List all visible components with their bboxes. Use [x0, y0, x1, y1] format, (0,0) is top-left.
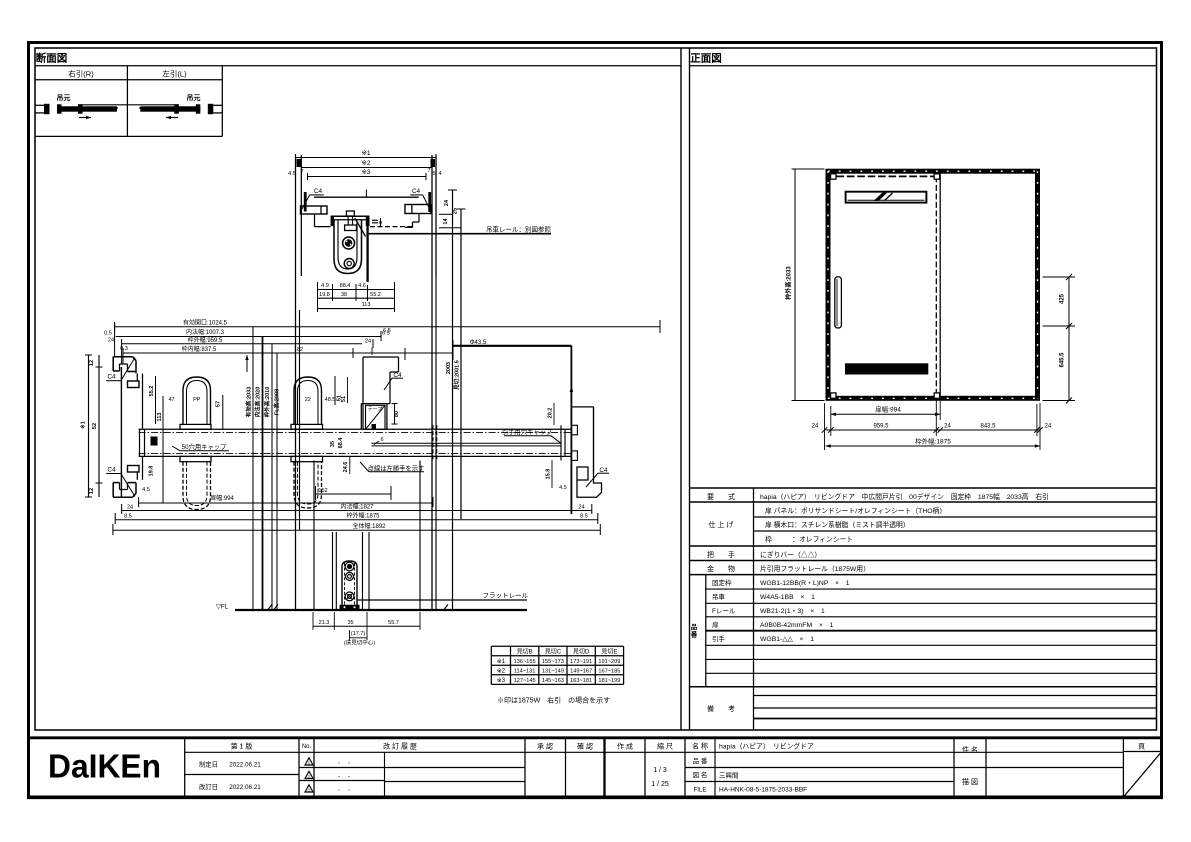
svg-text:HA-HNK-08-5-1875-2033-BBF: HA-HNK-08-5-1875-2033-BBF [719, 787, 807, 794]
door centerline top [365, 190, 367, 198]
front dim 645.5 [1060, 352, 1066, 368]
front dim chain labels [812, 424, 1052, 430]
height dim rot label 2003 [446, 362, 452, 374]
left jamb outer face [120, 367, 122, 497]
svg-text:163~181: 163~181 [570, 678, 592, 684]
left panel title 断面図 [36, 52, 68, 65]
svg-text:Φ43.5: Φ43.5 [470, 340, 487, 346]
svg-text:枠外幅:1875: 枠外幅:1875 [346, 512, 380, 520]
svg-text:内法幅:1007.3: 内法幅:1007.3 [186, 328, 225, 336]
hikikata header 左引(L) [162, 69, 187, 79]
rev dots 1 [336, 761, 351, 767]
flat rail leader text [483, 592, 529, 600]
dim 152 [316, 486, 392, 500]
svg-text:181~199: 181~199 [598, 678, 620, 684]
spec label 備考 [707, 704, 735, 713]
top detail dim label 14 [443, 218, 449, 225]
page diagonal [1124, 753, 1161, 797]
front door top dashed [837, 175, 937, 177]
left jamb inner face lower [142, 457, 144, 480]
floor rail circle 1 [345, 562, 354, 571]
left-pull wall stub [208, 104, 223, 114]
floor dim 床見切中心 [344, 638, 375, 646]
bottom wall line 420 [419, 461, 421, 611]
plan dim ext lines left [115, 322, 123, 364]
svg-text:※3: ※3 [361, 169, 370, 176]
rev dots 2 [336, 775, 351, 781]
rev cell header 第1版 [185, 742, 299, 753]
hanger roller circle lower [344, 259, 354, 269]
spec sub labels [712, 578, 736, 643]
warning triangle 2 [305, 771, 313, 779]
svg-text:113: 113 [157, 413, 163, 422]
height dim rot label 2001.5 [453, 360, 461, 391]
hanger pin [345, 211, 357, 231]
center post C4 [384, 372, 403, 390]
handle1 rear oval inner dashed [187, 462, 208, 506]
hikikata table frame [35, 66, 222, 137]
leader 点線は左勝手を示す [360, 462, 424, 472]
right jamb chamfer leader [586, 467, 609, 487]
svg-text:※2: ※2 [497, 668, 506, 675]
svg-text:図 名: 図 名 [693, 770, 708, 779]
left jamb dim 12 top [89, 360, 95, 366]
center post dim ext [371, 348, 373, 356]
svg-text:吊元: 吊元 [57, 93, 71, 102]
svg-text:見切:2001.5: 見切:2001.5 [453, 360, 461, 391]
dim line kome3 [308, 173, 427, 180]
svg-text:0.5: 0.5 [104, 331, 112, 337]
door top edge dashed [370, 226, 412, 228]
rev dots 3 [336, 788, 351, 794]
kenmei label [962, 745, 978, 754]
handle1 rear oval dashed [183, 462, 211, 510]
svg-text:番: 番 [690, 630, 698, 639]
floor rail circle 2 [346, 572, 354, 580]
svg-text:38: 38 [341, 292, 347, 298]
right jamb outer face [593, 407, 595, 474]
svg-text:内法幅:1827: 内法幅:1827 [340, 502, 374, 510]
svg-text:55.2: 55.2 [149, 386, 155, 397]
head jamb top face [314, 196, 419, 198]
front dim 425 [1060, 293, 1066, 304]
svg-text:FL高:2008: FL高:2008 [273, 389, 281, 415]
right jamb dim 4.5 [559, 485, 567, 491]
front door trailing edge solid [939, 171, 941, 398]
svg-text:6: 6 [380, 437, 383, 443]
front kickplate [845, 363, 928, 374]
adjust mark [372, 218, 382, 226]
front dim ext verts bottom [825, 398, 1041, 450]
band dim 88.4 [338, 437, 344, 449]
left jamb upper seal lip [128, 372, 140, 388]
spec table grid [690, 488, 1157, 730]
svg-text:24: 24 [944, 424, 951, 430]
center post inner box [366, 405, 386, 429]
top detail dim row1 [318, 283, 395, 290]
handle2 front oval [294, 377, 322, 425]
svg-text:959.5: 959.5 [873, 424, 889, 430]
leader 引手用穴キャップ [502, 427, 561, 443]
svg-text:C4: C4 [412, 188, 421, 195]
scale header 縮尺 [657, 742, 673, 751]
handle2 front oval inner [298, 381, 319, 425]
top detail dim vert A [439, 190, 461, 610]
svg-text:(床見切中心): (床見切中心) [344, 638, 375, 646]
left jamb bottom hook [113, 483, 136, 498]
spec label 金物 [707, 564, 735, 573]
svg-text:131~149: 131~149 [542, 669, 564, 675]
floor dim ext lines [313, 612, 420, 641]
warning triangle 1 [305, 758, 313, 766]
svg-text:見切B: 見切B [517, 649, 533, 656]
spec content 品番5 [760, 636, 814, 643]
height dim line 4 [276, 353, 278, 610]
door closed pos dashed [433, 425, 437, 460]
door band bottom edge [139, 455, 572, 457]
top detail left wall lines [296, 155, 302, 276]
handle1 front oval [183, 377, 211, 425]
plan dim row 1024.5 [115, 319, 660, 332]
title block top line [27, 736, 1163, 739]
door cap dim 6 [374, 437, 384, 445]
svg-text:24: 24 [108, 338, 114, 344]
front dim chain line [826, 429, 1041, 431]
dim label 4.5 7 left [288, 159, 303, 177]
check header 確認 [577, 742, 593, 751]
spec content 仕上3 [765, 534, 853, 543]
svg-text:Fレール: Fレール [712, 608, 736, 615]
front glass slit inner [848, 199, 925, 201]
page col [1123, 743, 1161, 752]
handle2 rear oval dashed [294, 462, 322, 508]
name header 名称 [692, 742, 708, 751]
spec content 品番2 [760, 594, 815, 601]
svg-text:扉 横木口：スチレン系樹脂（ミスト調半透明）: 扉 横木口：スチレン系樹脂（ミスト調半透明） [765, 520, 910, 529]
svg-text:425: 425 [1060, 293, 1066, 304]
center post dim 6.5 [383, 328, 391, 334]
right jamb dim line vert [570, 346, 574, 514]
front dim chain ticks [822, 427, 1043, 433]
bottom wall lines right pair [432, 276, 436, 610]
top detail dim row2 [318, 292, 395, 298]
svg-text:テープ: テープ [368, 407, 383, 413]
front glass slit outer [846, 192, 927, 203]
right jamb top face [571, 406, 593, 408]
svg-text:8.5: 8.5 [124, 514, 132, 520]
svg-text:枠内幅:837.5: 枠内幅:837.5 [182, 345, 217, 353]
height dim arrow [245, 355, 248, 372]
rev cell row2 [199, 782, 261, 791]
front door trailing edge dashed [935, 176, 937, 394]
handle dim 19.8 [149, 466, 155, 477]
handle dim PP1 [193, 397, 201, 403]
head jamb left lip [301, 206, 328, 214]
svg-text:24: 24 [1045, 424, 1052, 430]
spec content 把手 [760, 550, 821, 559]
door edge cap lines [372, 443, 562, 446]
center post outline [361, 357, 398, 429]
svg-text:品 番: 品 番 [693, 757, 708, 765]
height dim line 3 [271, 344, 273, 610]
left jamb dim vert inner [96, 355, 103, 497]
plan bottom row 1827 [122, 502, 592, 514]
top detail dim row3 [318, 302, 395, 309]
svg-text:にぎりバー（△△）: にぎりバー（△△） [760, 550, 821, 559]
top detail ext lines [318, 282, 395, 312]
right-pull door panel [57, 104, 117, 113]
svg-text:三興間: 三興間 [719, 771, 739, 780]
svg-text:4.5: 4.5 [559, 485, 567, 491]
front dim 1875 label [915, 437, 951, 446]
svg-text:扉幅:994: 扉幅:994 [210, 494, 234, 502]
dim label 7 5 4 right [427, 159, 441, 177]
svg-text:FILE: FILE [693, 787, 706, 794]
band dim 35 [330, 441, 336, 447]
FL break marks [268, 605, 448, 610]
svg-text:枠外高:2010: 枠外高:2010 [263, 387, 271, 419]
svg-text:枠外高:2033: 枠外高:2033 [785, 266, 793, 300]
svg-text:hapia（ハピア） リビングドア: hapia（ハピア） リビングドア [719, 742, 814, 751]
left jamb dim kome1 [79, 421, 87, 429]
svg-text:・ ・: ・ ・ [336, 788, 351, 794]
svg-text:4: 4 [438, 171, 441, 177]
svg-text:右引(R): 右引(R) [68, 69, 94, 79]
correction table headers [517, 649, 618, 656]
floor dim 17.7 [350, 631, 368, 638]
front glass slit hatch2 [885, 193, 893, 201]
height dim line 2 [262, 337, 264, 611]
kenmei divider [954, 767, 1123, 769]
right jamb lip [577, 467, 588, 480]
warning triangle 3 [305, 785, 313, 793]
floor rail inner dashed [345, 563, 355, 605]
svg-text:全体幅:1892: 全体幅:1892 [352, 522, 386, 530]
svg-text:名 称: 名 称 [692, 742, 708, 751]
bottom guide lines right [363, 532, 370, 610]
svg-text:A0B0B-42mmFM × 1: A0B0B-42mmFM × 1 [760, 622, 834, 629]
spec content 品番1 [760, 580, 850, 587]
handle dim 55.2 [149, 386, 155, 397]
right-pull wall stub [35, 104, 50, 114]
height dim line 1 [252, 327, 254, 610]
hinban label [693, 757, 708, 765]
svg-text:C4: C4 [314, 188, 323, 195]
door band dashdot top [139, 431, 572, 433]
svg-text:見切D: 見切D [573, 649, 590, 656]
svg-text:2003: 2003 [446, 362, 452, 374]
inner drawing border (thin) [35, 48, 1157, 730]
left-pull label 吊元 [187, 93, 201, 102]
head jamb left step [315, 214, 331, 227]
chamfer label C4 left [302, 188, 324, 209]
head jamb right step [405, 214, 419, 228]
left-pull opening line [127, 105, 178, 109]
svg-text:枠 ：オレフィンシート: 枠 ：オレフィンシート [765, 534, 853, 543]
top detail dim vert B [457, 209, 466, 519]
handle1 front flange [180, 424, 211, 429]
leader 50穴用キャップ [172, 442, 229, 451]
zumei label [693, 770, 708, 779]
svg-text:有効高:2033: 有効高:2033 [245, 387, 253, 418]
front dim left label [785, 266, 793, 300]
bottom wall line left a [295, 276, 297, 610]
chamfer label C4 right [410, 188, 430, 209]
hanger roller circle upper [343, 237, 355, 249]
svg-text:12: 12 [89, 488, 95, 494]
svg-text:167~185: 167~185 [598, 669, 620, 675]
hanger mount plate [331, 216, 370, 226]
file content [719, 787, 807, 794]
svg-text:55.7: 55.7 [388, 620, 399, 626]
plan dim phi43.5 [453, 340, 572, 346]
height dim rot label 3 [263, 387, 271, 419]
spec content 要式 [760, 492, 1049, 501]
svg-text:※3: ※3 [497, 677, 506, 684]
right panel header line [690, 65, 1157, 67]
svg-text:7: 7 [300, 169, 303, 175]
svg-text:20.2: 20.2 [548, 408, 554, 419]
svg-text:173~191: 173~191 [570, 659, 592, 665]
svg-text:21.3: 21.3 [319, 620, 330, 626]
front corner square BL [831, 393, 836, 398]
spec content 仕上2 [765, 520, 910, 529]
svg-text:80: 80 [394, 411, 400, 417]
svg-text:47: 47 [168, 397, 174, 403]
right panel title 正面図 [690, 53, 722, 65]
svg-text:左引(L): 左引(L) [162, 69, 187, 79]
plan dim row 837.5 [120, 345, 453, 353]
svg-text:WB21-2(1・3) × 1: WB21-2(1・3) × 1 [760, 608, 825, 615]
svg-text:2022.06.21: 2022.06.21 [229, 762, 261, 769]
front frame dots [828, 171, 1038, 398]
svg-text:127~145: 127~145 [514, 678, 536, 684]
file label [693, 787, 706, 794]
top detail dim label 25 [453, 208, 459, 214]
svg-text:7: 7 [427, 168, 430, 174]
handle2 front flange [291, 424, 323, 429]
svg-text:改訂日: 改訂日 [199, 782, 218, 791]
svg-text:内法高:2020: 内法高:2020 [254, 387, 262, 418]
svg-text:引手: 引手 [712, 634, 726, 643]
rev rows lines [299, 752, 1123, 797]
front dim 1875 line [826, 444, 1041, 447]
handle2 rear oval inner dashed [298, 462, 319, 504]
door band left end [140, 429, 145, 456]
left-pull door panel [140, 104, 200, 113]
left jamb lower seal lip [128, 466, 140, 480]
svg-text:145~163: 145~163 [542, 678, 564, 684]
svg-text:※1: ※1 [79, 421, 87, 429]
svg-text:固定枠: 固定枠 [712, 578, 732, 587]
front glass slit hatch1 [875, 193, 887, 201]
bottom wall line left b [299, 310, 301, 530]
svg-text:制定日: 制定日 [199, 760, 218, 769]
svg-text:有効開口:1024.5: 有効開口:1024.5 [183, 319, 228, 327]
front frame band [828, 171, 1038, 398]
svg-text:1 / 25: 1 / 25 [651, 781, 669, 788]
left jamb C4 top [106, 358, 135, 381]
svg-text:備 考: 備 考 [707, 704, 735, 713]
svg-text:描 図: 描 図 [962, 777, 978, 786]
correction table row1 [497, 658, 621, 665]
correction table row2 [497, 668, 621, 675]
left jamb dim 52 [92, 423, 98, 429]
handle2 rear flange [291, 456, 323, 461]
svg-text:把 手: 把 手 [707, 550, 735, 559]
svg-text:51: 51 [341, 396, 347, 402]
svg-text:24: 24 [444, 199, 450, 206]
svg-text:C4: C4 [107, 466, 116, 473]
zumei content [719, 771, 739, 780]
svg-text:吊車レール：別図参照: 吊車レール：別図参照 [486, 225, 552, 234]
FL label [216, 603, 229, 610]
bottom guide lines left [333, 532, 337, 610]
svg-text:25: 25 [453, 208, 459, 214]
plan bottom row 994 ticks [138, 497, 140, 507]
rail leader line [368, 233, 551, 235]
svg-text:15.8: 15.8 [546, 469, 552, 480]
svg-text:114~131: 114~131 [514, 669, 536, 675]
spec label 仕上げ [709, 520, 734, 529]
right-pull label 吊元 [57, 93, 71, 102]
rev history header [383, 742, 417, 751]
rail leader text 吊車レール [486, 225, 552, 234]
svg-text:149~167: 149~167 [570, 669, 592, 675]
svg-text:24: 24 [127, 504, 133, 510]
floor rail block [342, 561, 357, 610]
svg-text:6.5: 6.5 [383, 328, 391, 334]
spec label 把手 [707, 550, 735, 559]
FL line [235, 609, 527, 611]
spec content 品番4 [760, 622, 834, 629]
svg-text:(17.7): (17.7) [351, 631, 366, 637]
svg-text:枠外幅:959.5: 枠外幅:959.5 [188, 336, 223, 344]
svg-text:承 認: 承 認 [537, 742, 553, 751]
svg-text:24: 24 [578, 504, 584, 510]
correction table row3 [497, 677, 621, 684]
spec label 要式 [707, 492, 735, 501]
svg-text:24: 24 [365, 339, 371, 345]
svg-text:152: 152 [318, 488, 327, 494]
dim label kome1 [361, 150, 370, 157]
door band dashdot bottom [139, 452, 572, 454]
dim label kome3 [361, 169, 370, 176]
svg-text:▽FL: ▽FL [216, 603, 229, 610]
svg-text:645.5: 645.5 [1060, 352, 1066, 368]
correction table grid [491, 646, 623, 684]
handle dim 51 [337, 395, 343, 401]
spec content 仕上1 [765, 506, 946, 515]
head jamb right lip [405, 205, 431, 214]
spec label 品番 [690, 622, 698, 639]
svg-text:hapia（ハピア） リビングドア 中広間戸片引 00デザイ: hapia（ハピア） リビングドア 中広間戸片引 00デザイン 固定枠 1875… [760, 492, 1049, 501]
handle1 rear flange [180, 456, 211, 461]
door band top edge [139, 428, 572, 430]
svg-text:縮 尺: 縮 尺 [657, 742, 673, 751]
svg-text:吊車: 吊車 [712, 592, 726, 601]
svg-text:件 名: 件 名 [962, 745, 978, 754]
svg-text:48.5: 48.5 [325, 397, 336, 403]
right jamb dim 15.8 [546, 460, 553, 488]
front corner square TL [831, 174, 836, 179]
svg-text:吊元: 吊元 [187, 93, 201, 102]
height dim rot label 4 [273, 389, 281, 415]
svg-text:DaIKEn: DaIKEn [48, 748, 161, 785]
plan dim end tick 660 [659, 320, 661, 333]
svg-text:4.5: 4.5 [142, 487, 150, 493]
byozu label [962, 777, 978, 786]
